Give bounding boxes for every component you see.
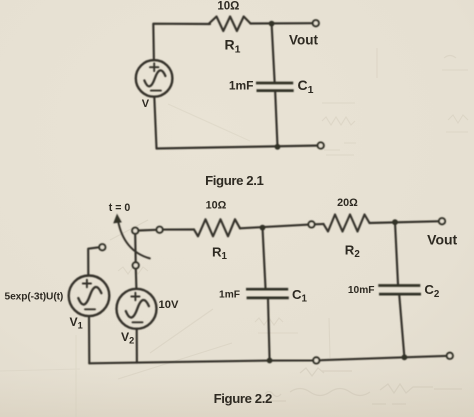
- svg-text:Figure 2.1: Figure 2.1: [205, 173, 263, 188]
- svg-text:1mF: 1mF: [219, 290, 240, 301]
- svg-text:10mF: 10mF: [348, 285, 375, 296]
- svg-text:10V: 10V: [159, 299, 179, 311]
- svg-text:t = 0: t = 0: [109, 202, 131, 214]
- svg-text:5exp(-3t)U(t): 5exp(-3t)U(t): [5, 292, 64, 303]
- svg-text:1mF: 1mF: [229, 79, 254, 93]
- svg-text:20Ω: 20Ω: [337, 197, 358, 209]
- svg-text:Vout: Vout: [289, 33, 318, 48]
- svg-text:10Ω: 10Ω: [217, 1, 239, 13]
- svg-text:Figure 2.2: Figure 2.2: [214, 391, 272, 406]
- svg-text:V: V: [142, 98, 150, 110]
- svg-text:Vout: Vout: [427, 232, 457, 248]
- svg-text:10Ω: 10Ω: [206, 199, 227, 211]
